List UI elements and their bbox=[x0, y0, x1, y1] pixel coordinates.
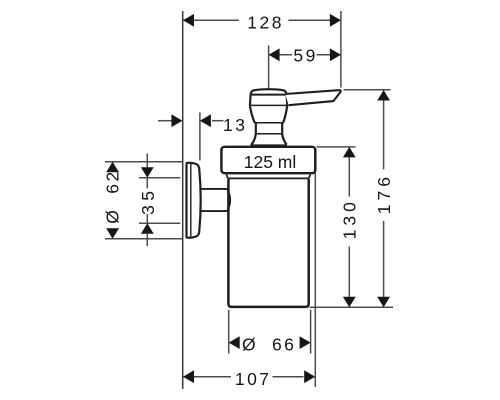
pump cap base line bbox=[250, 94, 287, 96]
svg-text:Ø 62: Ø 62 bbox=[103, 169, 123, 223]
wire plate-front extension (for 13) bbox=[199, 113, 201, 161]
wire holder top extension (for 130) bbox=[317, 146, 356, 148]
svg-text:128: 128 bbox=[247, 12, 284, 32]
wire bottle left extension (for dia 66) bbox=[228, 310, 230, 354]
dimension dia 66 bbox=[229, 334, 311, 354]
dimension dia 62 bbox=[103, 162, 123, 239]
holder arm bottom edge bbox=[200, 210, 227, 212]
pump head mid line bbox=[250, 104, 287, 106]
holder arm top edge bbox=[200, 188, 227, 190]
wall plate escutcheon outline bbox=[187, 163, 201, 238]
pump head upper side left bbox=[249, 95, 252, 106]
dimension 59 bbox=[269, 46, 341, 66]
glass cup body bbox=[228, 179, 308, 307]
wire 35 top extension bbox=[139, 177, 180, 179]
svg-text:35: 35 bbox=[138, 186, 158, 214]
wire pump centre axis extension bbox=[268, 46, 270, 91]
pump flare left bbox=[251, 134, 255, 145]
holder ring 125 ml bbox=[221, 147, 315, 173]
dimension 176 bbox=[374, 90, 394, 307]
holder arm end cap arc bbox=[227, 189, 230, 210]
wire bottle right extension (for dia 66) bbox=[310, 310, 312, 354]
svg-text:59: 59 bbox=[293, 46, 317, 66]
svg-text:176: 176 bbox=[374, 173, 394, 214]
wire 35 bottom extension bbox=[139, 222, 180, 224]
pump neck left bbox=[255, 123, 257, 134]
wire bottle bottom extension (for 130 and 176) bbox=[310, 306, 394, 308]
wire plate top extension (for dia 62) bbox=[105, 161, 182, 163]
cup rim left bevel bbox=[226, 175, 227, 178]
wire spout top extension (for 176) bbox=[344, 89, 391, 91]
pump head taper bottom line bbox=[255, 122, 284, 124]
pump neck right bbox=[281, 123, 283, 134]
pump flare right bbox=[282, 134, 286, 145]
wire wall surface line bbox=[182, 11, 184, 389]
pump dome cap bbox=[251, 89, 287, 94]
pump neck bottom line bbox=[256, 133, 282, 135]
wall plate inner step line bbox=[190, 164, 192, 237]
dimension 35 bbox=[138, 154, 158, 247]
svg-text:Ø 66: Ø 66 bbox=[242, 334, 296, 354]
dimension 107 bbox=[183, 369, 315, 389]
pump foot line bbox=[250, 144, 287, 146]
pump head taper left bbox=[250, 105, 255, 122]
svg-text:130: 130 bbox=[340, 198, 360, 239]
dimension 128 bbox=[183, 12, 341, 32]
wire holder right edge extension (for 107) bbox=[314, 173, 316, 388]
dimension 13 bbox=[158, 114, 247, 135]
svg-text:125 ml: 125 ml bbox=[244, 152, 297, 172]
pump head taper right bbox=[283, 105, 287, 122]
wire plate bottom extension (for dia 62) bbox=[105, 238, 182, 240]
dimension 130 bbox=[340, 147, 360, 307]
pump head upper side right bbox=[286, 95, 289, 106]
cup rim right bevel bbox=[309, 175, 310, 178]
cup rim line bbox=[228, 177, 309, 179]
svg-text:13: 13 bbox=[223, 115, 247, 135]
pump lever spout bbox=[285, 90, 340, 105]
wire right extension line (spout tip, for 128 and 59) bbox=[340, 11, 342, 88]
svg-text:107: 107 bbox=[235, 369, 272, 389]
